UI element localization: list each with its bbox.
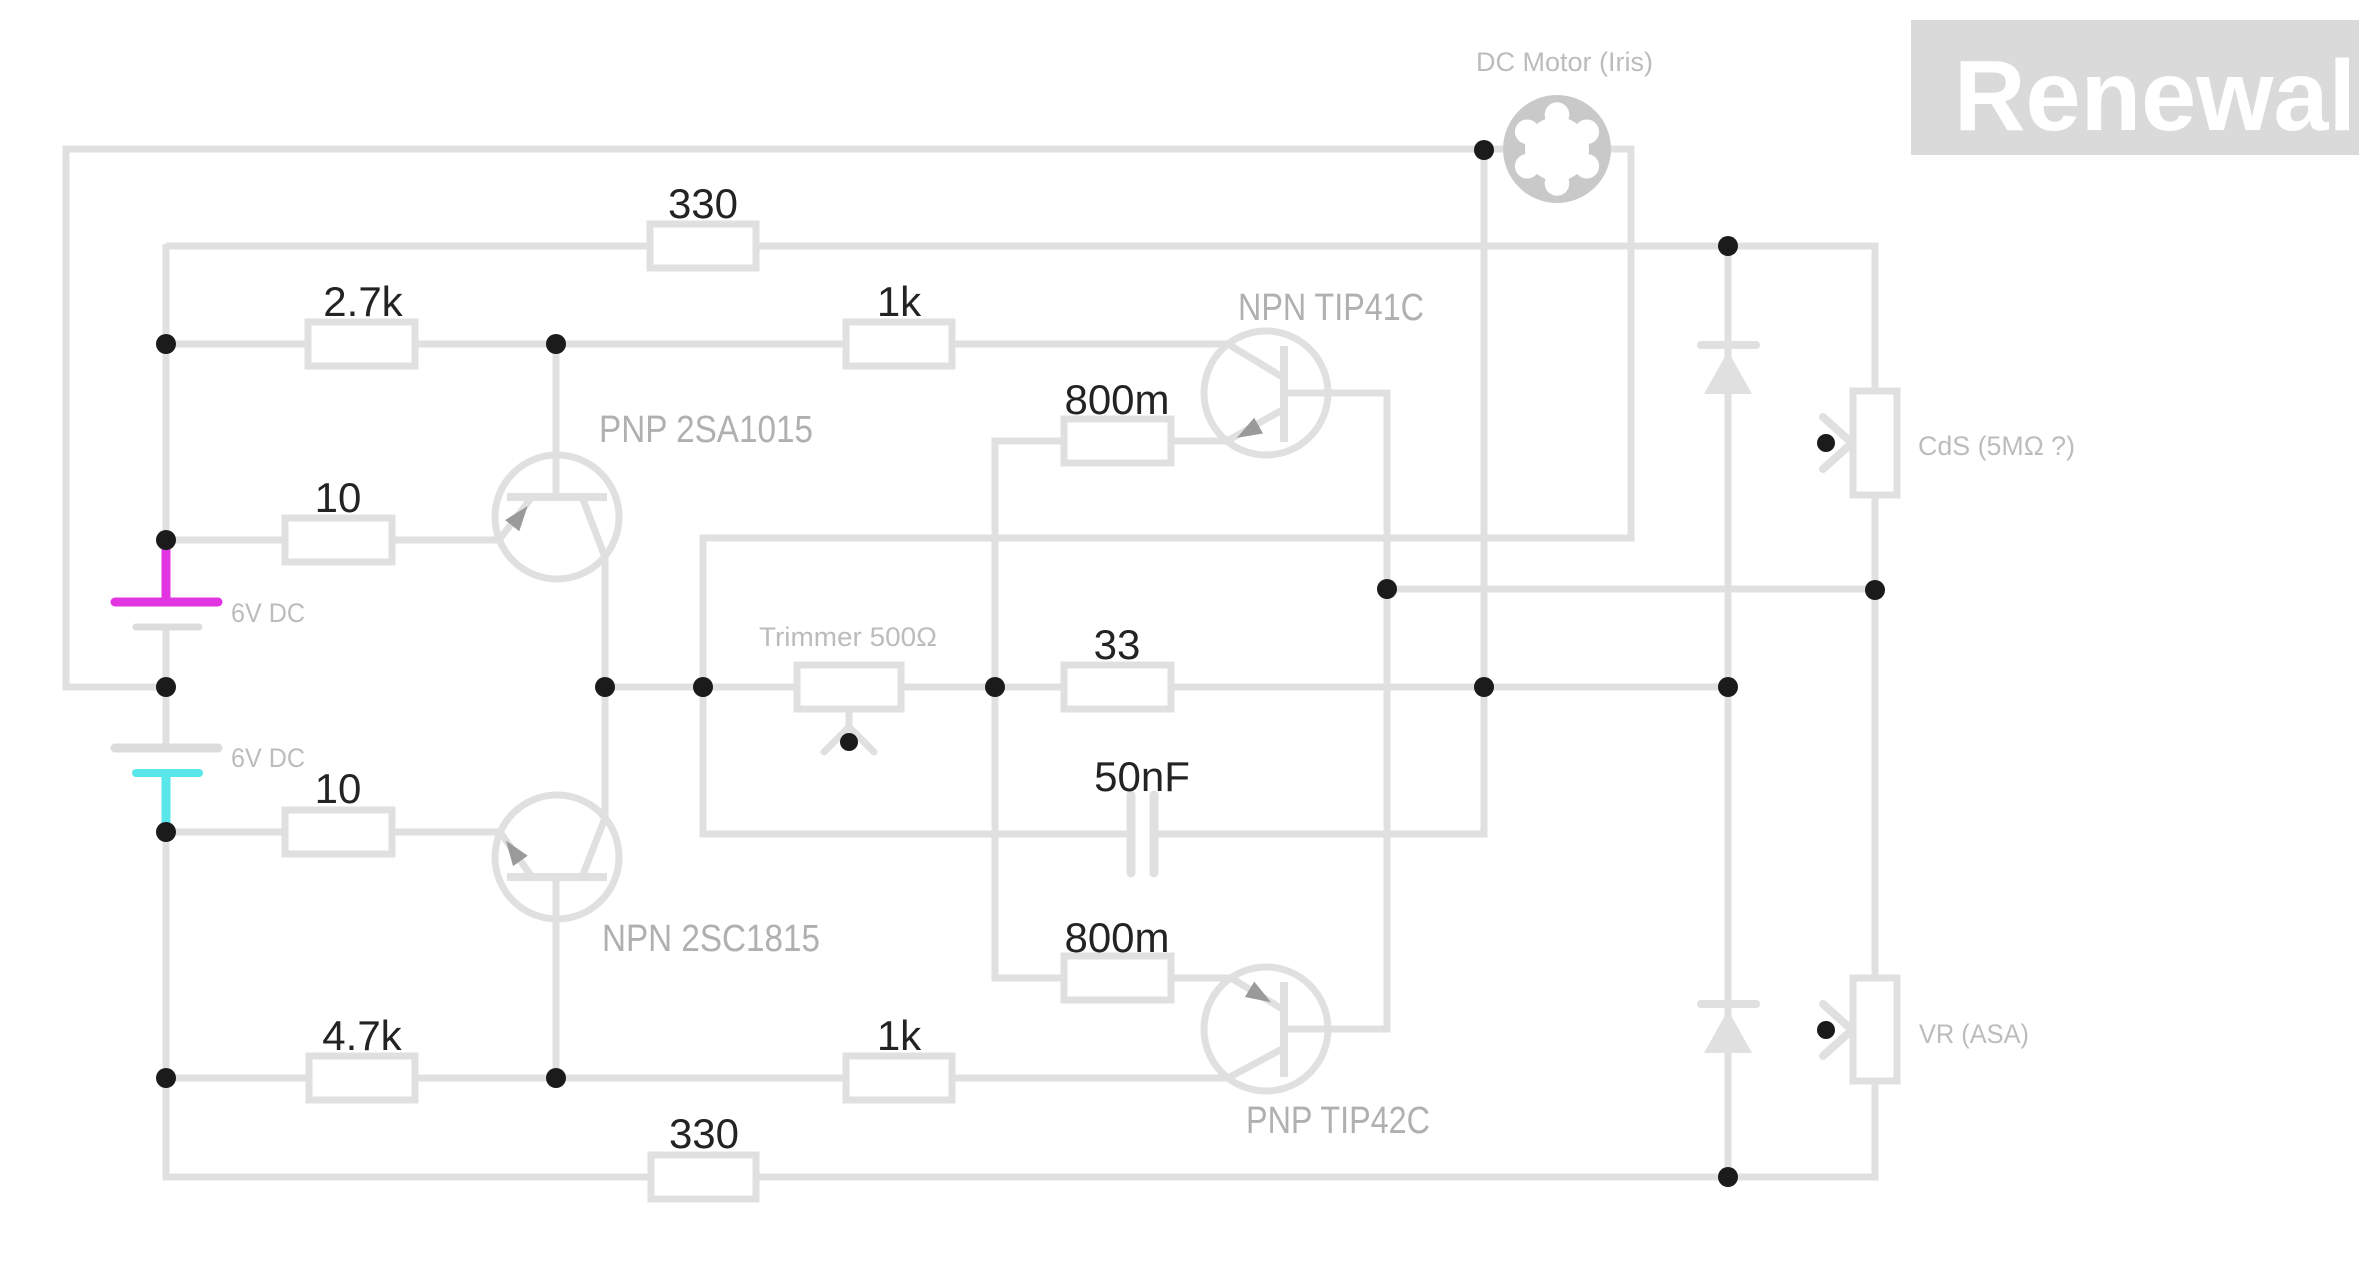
photoresistor CdS	[1823, 391, 1897, 495]
svg-text:10: 10	[315, 765, 362, 812]
svg-text:800m: 800m	[1064, 914, 1169, 961]
resistor R7 10 bottom	[285, 810, 392, 854]
diode D1	[1701, 345, 1756, 394]
svg-text:4.7k: 4.7k	[322, 1012, 402, 1059]
resistor R5 800m top	[1064, 419, 1171, 463]
svg-text:1k: 1k	[877, 1012, 922, 1059]
wire 50nF right lead up to top rail junction	[1158, 147, 1484, 834]
svg-text:Renewal: Renewal	[1954, 40, 2356, 152]
trimmer VR1 500 ohm	[797, 665, 901, 752]
svg-text:VR (ASA): VR (ASA)	[1919, 1019, 2029, 1049]
wire base column joining TIP41C and TIP42C bases	[1284, 393, 1387, 1029]
DC motor M1 (Iris)	[1503, 95, 1611, 203]
svg-text:6V DC: 6V DC	[231, 598, 305, 628]
arrow Q1 emitter	[505, 500, 535, 531]
svg-text:800m: 800m	[1064, 376, 1169, 423]
wire battery middle connector	[163, 627, 170, 750]
svg-text:CdS (5MΩ ?): CdS (5MΩ ?)	[1918, 431, 2075, 461]
wire middle rail with trimmer and 33	[605, 684, 1728, 691]
resistor R1 330 top	[650, 224, 756, 268]
svg-text:PNP 2SA1015: PNP 2SA1015	[599, 409, 813, 451]
arrow Q3 emitter	[499, 835, 528, 866]
diode D2	[1701, 1004, 1756, 1053]
battery B1 6V DC magenta positive	[115, 540, 218, 627]
svg-text:10: 10	[315, 474, 362, 521]
wire second rail to CdS column and bottom rail loop	[166, 246, 1875, 1177]
wire 10 top rail to 2SA1015 emitter	[166, 537, 499, 544]
wire diode column right	[1725, 246, 1732, 1177]
wire base link rail TIP41C to CdS bottom	[1387, 586, 1875, 593]
resistor R10 1k bottom	[846, 1056, 952, 1100]
wire left battery column upper	[163, 244, 170, 545]
resistor R11 330 bottom	[651, 1155, 756, 1199]
wire battery2 bottom to lower rails	[163, 830, 170, 1078]
svg-text:DC Motor (Iris): DC Motor (Iris)	[1476, 47, 1653, 77]
wire 800m loop left column	[995, 441, 1231, 978]
svg-text:50nF: 50nF	[1094, 753, 1190, 800]
capacitor C1 50nF	[1131, 795, 1154, 873]
transistor Q4 PNP TIP42C	[1204, 967, 1328, 1091]
resistor R6 33	[1064, 665, 1171, 709]
wire top rail from left loop to motor	[66, 149, 1503, 687]
wire 4.7k / 1k rail to TIP42C collector	[166, 1075, 1228, 1082]
transistor Q3 NPN 2SC1815	[495, 687, 619, 1078]
junction node dots	[156, 140, 1885, 1187]
wire motor right lead down and across to 50nF left lead	[703, 149, 1631, 834]
resistor R4 10 top	[285, 518, 392, 562]
potentiometer VR (ASA)	[1823, 978, 1897, 1081]
svg-text:6V DC: 6V DC	[231, 743, 305, 773]
Renewal banner	[1911, 20, 2359, 155]
arrow Q4 emitter	[1245, 982, 1276, 1010]
battery B2 6V DC cyan negative	[115, 748, 218, 832]
wire 10 bottom rail to 2SC1815 emitter	[166, 829, 500, 836]
svg-text:PNP TIP42C: PNP TIP42C	[1246, 1100, 1430, 1142]
svg-text:NPN TIP41C: NPN TIP41C	[1238, 287, 1424, 329]
svg-text:33: 33	[1094, 621, 1141, 668]
svg-text:NPN 2SC1815: NPN 2SC1815	[602, 918, 820, 960]
resistor R8 800m bottom	[1064, 956, 1171, 1000]
resistor R2 2.7k	[308, 322, 415, 366]
resistor R9 4.7k	[309, 1056, 415, 1100]
svg-text:330: 330	[669, 1110, 739, 1157]
transistor Q1 PNP 2SA1015	[495, 344, 619, 687]
transistor Q2 NPN TIP41C	[1204, 331, 1328, 455]
svg-text:Trimmer 500Ω: Trimmer 500Ω	[759, 622, 937, 652]
svg-text:1k: 1k	[877, 278, 922, 325]
wire 2.7k / 1k rail to TIP41C collector	[166, 341, 1228, 348]
svg-text:330: 330	[668, 180, 738, 227]
resistor R3 1k top	[846, 322, 952, 366]
svg-text:2.7k: 2.7k	[323, 278, 403, 325]
arrow Q2 emitter	[1232, 418, 1263, 446]
